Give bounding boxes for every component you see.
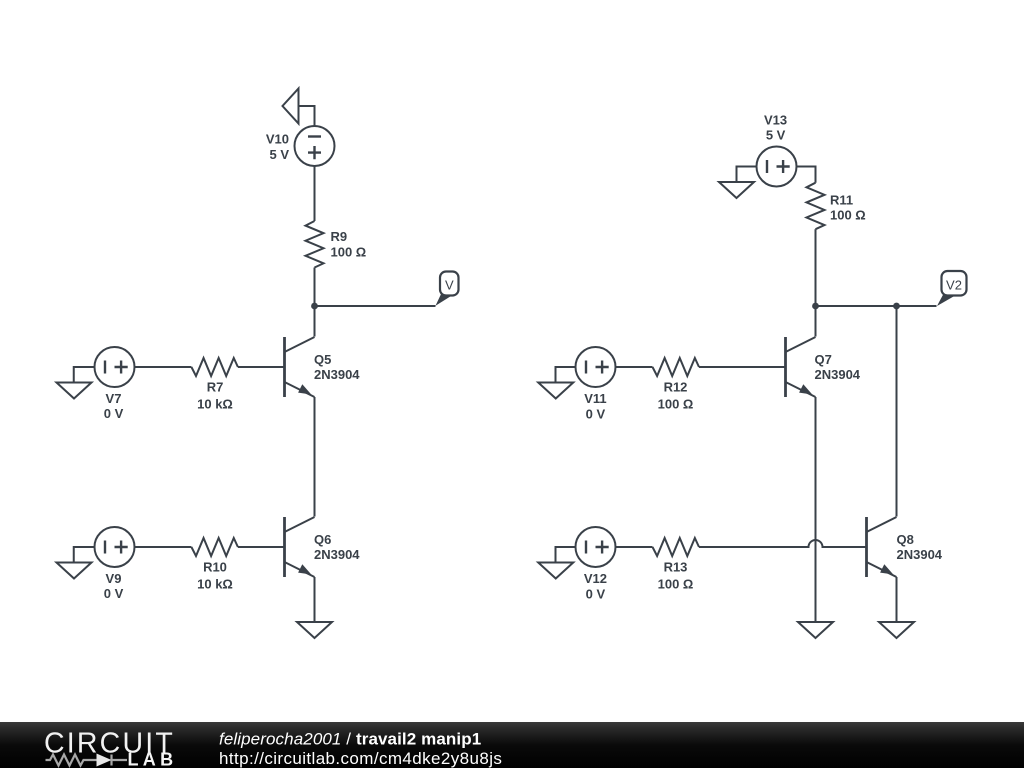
svg-text:V2: V2 [946, 278, 962, 293]
svg-text:0 V: 0 V [104, 406, 124, 421]
svg-text:100 Ω: 100 Ω [658, 397, 694, 412]
svg-text:V: V [445, 278, 454, 293]
svg-text:2N3904: 2N3904 [314, 547, 360, 562]
svg-text:100 Ω: 100 Ω [658, 577, 694, 592]
svg-text:R7: R7 [207, 380, 224, 395]
svg-text:R13: R13 [664, 560, 688, 575]
svg-text:10 kΩ: 10 kΩ [197, 577, 233, 592]
svg-text:5 V: 5 V [269, 147, 289, 162]
svg-text:2N3904: 2N3904 [815, 367, 861, 382]
svg-text:V7: V7 [106, 391, 122, 406]
svg-text:R12: R12 [664, 380, 688, 395]
svg-text:V9: V9 [106, 571, 122, 586]
svg-text:http://circuitlab.com/cm4dke2y: http://circuitlab.com/cm4dke2y8u8js [219, 749, 502, 768]
svg-text:5 V: 5 V [766, 127, 786, 142]
svg-text:V12: V12 [584, 571, 607, 586]
svg-text:R11: R11 [830, 192, 853, 207]
svg-text:V10: V10 [266, 132, 289, 147]
svg-text:V13: V13 [764, 112, 787, 127]
svg-text:feliperocha2001 / travail2 man: feliperocha2001 / travail2 manip1 [219, 729, 481, 748]
svg-text:V11: V11 [584, 391, 606, 406]
svg-text:Q7: Q7 [815, 352, 832, 367]
svg-text:Q8: Q8 [897, 532, 914, 547]
svg-text:0 V: 0 V [586, 586, 606, 601]
svg-text:10 kΩ: 10 kΩ [197, 397, 233, 412]
svg-text:2N3904: 2N3904 [314, 367, 360, 382]
svg-text:100 Ω: 100 Ω [830, 207, 866, 222]
svg-text:Q5: Q5 [314, 352, 331, 367]
svg-text:0 V: 0 V [104, 586, 124, 601]
svg-text:2N3904: 2N3904 [897, 547, 943, 562]
svg-text:LAB: LAB [128, 749, 178, 768]
svg-text:R9: R9 [331, 229, 348, 244]
svg-text:0 V: 0 V [586, 406, 606, 421]
svg-text:100 Ω: 100 Ω [331, 245, 367, 260]
svg-text:Q6: Q6 [314, 532, 331, 547]
svg-text:R10: R10 [203, 560, 227, 575]
